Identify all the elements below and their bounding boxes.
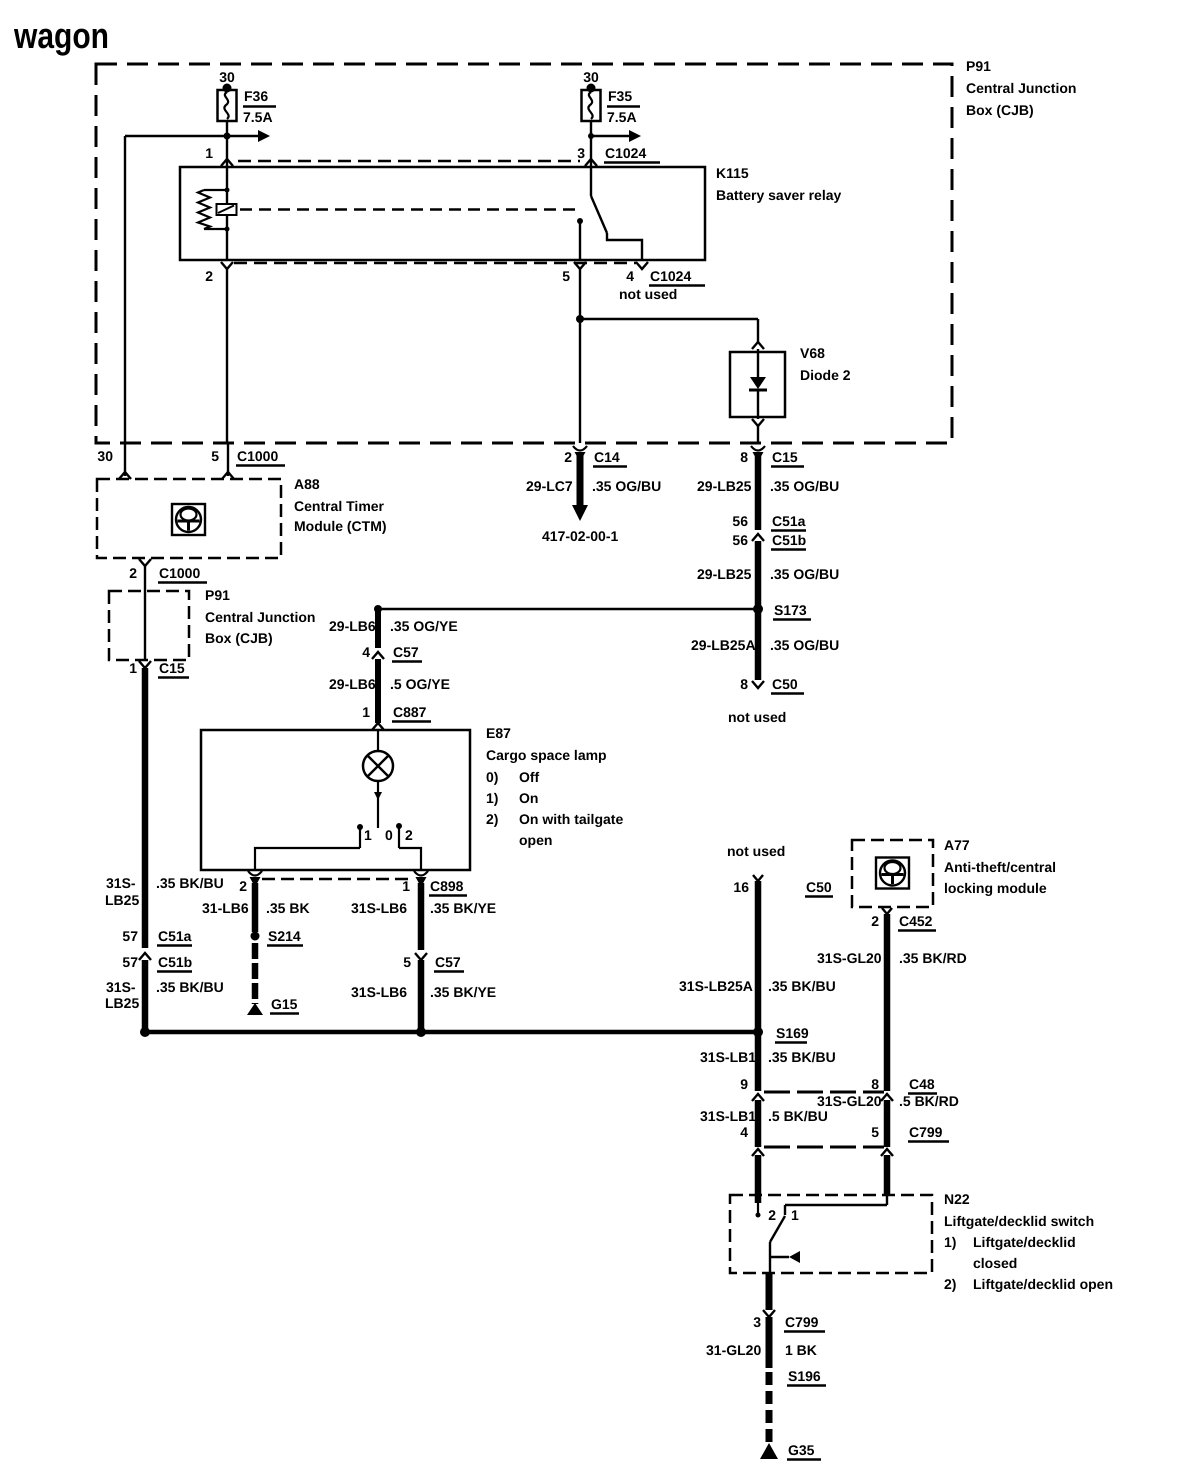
- svg-text:3: 3: [753, 1314, 761, 1330]
- svg-text:A77: A77: [944, 837, 970, 853]
- svg-text:16: 16: [733, 879, 749, 895]
- svg-text:Cargo space lamp: Cargo space lamp: [486, 747, 607, 763]
- svg-text:.5 BK/RD: .5 BK/RD: [899, 1093, 959, 1109]
- svg-text:31S-GL20: 31S-GL20: [817, 950, 882, 966]
- svg-text:.5 BK/BU: .5 BK/BU: [768, 1108, 828, 1124]
- svg-text:7.5A: 7.5A: [607, 109, 637, 125]
- svg-text:C452: C452: [899, 913, 933, 929]
- svg-text:29-LB6: 29-LB6: [329, 618, 376, 634]
- svg-text:Liftgate/decklid: Liftgate/decklid: [973, 1234, 1076, 1250]
- svg-text:C898: C898: [430, 878, 464, 894]
- svg-text:4: 4: [740, 1124, 748, 1140]
- svg-text:LB25: LB25: [105, 892, 139, 908]
- svg-text:C15: C15: [772, 449, 798, 465]
- svg-text:Central Junction: Central Junction: [966, 80, 1076, 96]
- svg-text:C799: C799: [785, 1314, 819, 1330]
- svg-text:5: 5: [211, 448, 219, 464]
- svg-text:31S-GL20: 31S-GL20: [817, 1093, 882, 1109]
- svg-text:.35 BK: .35 BK: [266, 900, 310, 916]
- svg-text:30: 30: [97, 448, 113, 464]
- svg-text:29-LB25: 29-LB25: [697, 566, 752, 582]
- svg-text:G35: G35: [788, 1442, 815, 1458]
- svg-text:F36: F36: [244, 88, 268, 104]
- svg-text:Diode 2: Diode 2: [800, 367, 851, 383]
- svg-text:.35 BK/BU: .35 BK/BU: [768, 978, 836, 994]
- svg-text:C799: C799: [909, 1124, 943, 1140]
- svg-text:1: 1: [402, 878, 410, 894]
- svg-text:LB25: LB25: [105, 995, 139, 1011]
- svg-text:On with tailgate: On with tailgate: [519, 811, 623, 827]
- svg-text:31S-: 31S-: [106, 875, 136, 891]
- svg-text:Module (CTM): Module (CTM): [294, 518, 387, 534]
- svg-text:Liftgate/decklid open: Liftgate/decklid open: [973, 1276, 1113, 1292]
- svg-text:31S-: 31S-: [106, 979, 136, 995]
- svg-text:C50: C50: [806, 879, 832, 895]
- svg-text:C50: C50: [772, 676, 798, 692]
- svg-text:On: On: [519, 790, 538, 806]
- svg-text:C51a: C51a: [772, 513, 806, 529]
- svg-text:31S-LB6: 31S-LB6: [351, 900, 407, 916]
- svg-text:locking module: locking module: [944, 880, 1047, 896]
- svg-text:C48: C48: [909, 1076, 935, 1092]
- svg-text:0): 0): [486, 769, 498, 785]
- svg-text:Liftgate/decklid switch: Liftgate/decklid switch: [944, 1213, 1094, 1229]
- svg-text:8: 8: [871, 1076, 879, 1092]
- svg-text:29-LB6: 29-LB6: [329, 676, 376, 692]
- svg-text:1: 1: [362, 704, 370, 720]
- svg-text:31S-LB25A: 31S-LB25A: [679, 978, 753, 994]
- svg-text:1 BK: 1 BK: [785, 1342, 817, 1358]
- svg-text:Box (CJB): Box (CJB): [205, 630, 273, 646]
- svg-text:31S-LB6: 31S-LB6: [351, 984, 407, 1000]
- svg-text:5: 5: [562, 268, 570, 284]
- svg-text:S196: S196: [788, 1368, 821, 1384]
- svg-text:Off: Off: [519, 769, 540, 785]
- svg-text:.35 OG/BU: .35 OG/BU: [770, 478, 839, 494]
- svg-text:1: 1: [791, 1207, 799, 1223]
- svg-text:P91: P91: [205, 587, 230, 603]
- svg-text:Battery saver relay: Battery saver relay: [716, 187, 842, 203]
- svg-text:5: 5: [871, 1124, 879, 1140]
- svg-text:.35 OG/YE: .35 OG/YE: [390, 618, 458, 634]
- svg-text:1: 1: [205, 145, 213, 161]
- svg-text:.35 BK/RD: .35 BK/RD: [899, 950, 967, 966]
- svg-text:4: 4: [626, 268, 634, 284]
- svg-text:2: 2: [871, 913, 879, 929]
- svg-text:S173: S173: [774, 602, 807, 618]
- svg-text:.35 BK/BU: .35 BK/BU: [156, 979, 224, 995]
- svg-text:30: 30: [219, 69, 235, 85]
- svg-text:57: 57: [122, 928, 138, 944]
- svg-text:C57: C57: [393, 644, 419, 660]
- svg-text:2: 2: [405, 827, 413, 843]
- svg-text:.35 OG/BU: .35 OG/BU: [770, 637, 839, 653]
- svg-text:Anti-theft/central: Anti-theft/central: [944, 859, 1056, 875]
- svg-text:C15: C15: [159, 660, 185, 676]
- svg-text:C51b: C51b: [158, 954, 192, 970]
- svg-text:open: open: [519, 832, 552, 848]
- svg-text:3: 3: [577, 145, 585, 161]
- svg-text:31-LB6: 31-LB6: [202, 900, 249, 916]
- svg-text:1: 1: [129, 660, 137, 676]
- svg-text:2: 2: [239, 878, 247, 894]
- svg-text:E87: E87: [486, 725, 511, 741]
- svg-text:29-LB25: 29-LB25: [697, 478, 752, 494]
- svg-text:2: 2: [768, 1207, 776, 1223]
- svg-text:5: 5: [403, 954, 411, 970]
- svg-text:9: 9: [740, 1076, 748, 1092]
- svg-text:not used: not used: [727, 843, 785, 859]
- svg-text:1: 1: [364, 827, 372, 843]
- svg-text:S214: S214: [268, 928, 301, 944]
- svg-text:1): 1): [486, 790, 498, 806]
- svg-text:Central Junction: Central Junction: [205, 609, 315, 625]
- svg-text:2: 2: [205, 268, 213, 284]
- svg-text:N22: N22: [944, 1191, 970, 1207]
- svg-text:A88: A88: [294, 476, 320, 492]
- svg-text:2): 2): [944, 1276, 956, 1292]
- svg-text:V68: V68: [800, 345, 825, 361]
- svg-text:417-02-00-1: 417-02-00-1: [542, 528, 618, 544]
- svg-text:56: 56: [732, 532, 748, 548]
- svg-text:.35 BK/YE: .35 BK/YE: [430, 984, 496, 1000]
- svg-text:C1000: C1000: [237, 448, 278, 464]
- svg-text:not used: not used: [619, 286, 677, 302]
- svg-text:1): 1): [944, 1234, 956, 1250]
- svg-text:.35 OG/BU: .35 OG/BU: [592, 478, 661, 494]
- svg-text:8: 8: [740, 449, 748, 465]
- svg-text:C14: C14: [594, 449, 620, 465]
- svg-text:56: 56: [732, 513, 748, 529]
- svg-text:not used: not used: [728, 709, 786, 725]
- svg-text:.35 BK/BU: .35 BK/BU: [768, 1049, 836, 1065]
- svg-text:C51b: C51b: [772, 532, 806, 548]
- svg-text:.35 BK/BU: .35 BK/BU: [156, 875, 224, 891]
- svg-text:29-LB25A: 29-LB25A: [691, 637, 756, 653]
- svg-text:.5 OG/YE: .5 OG/YE: [390, 676, 450, 692]
- svg-text:C1024: C1024: [650, 268, 691, 284]
- svg-text:2): 2): [486, 811, 498, 827]
- svg-text:0: 0: [385, 827, 393, 843]
- svg-text:29-LC7: 29-LC7: [526, 478, 573, 494]
- svg-text:31-GL20: 31-GL20: [706, 1342, 761, 1358]
- svg-text:F35: F35: [608, 88, 632, 104]
- svg-text:C1000: C1000: [159, 565, 200, 581]
- svg-text:G15: G15: [271, 996, 298, 1012]
- svg-text:C57: C57: [435, 954, 461, 970]
- svg-text:Box (CJB): Box (CJB): [966, 102, 1034, 118]
- svg-text:wagon: wagon: [13, 15, 109, 56]
- svg-text:P91: P91: [966, 58, 991, 74]
- svg-text:C51a: C51a: [158, 928, 192, 944]
- svg-text:31S-LB1: 31S-LB1: [700, 1108, 756, 1124]
- svg-text:C1024: C1024: [605, 145, 646, 161]
- svg-text:57: 57: [122, 954, 138, 970]
- svg-text:30: 30: [583, 69, 599, 85]
- svg-text:2: 2: [564, 449, 572, 465]
- svg-text:.35 BK/YE: .35 BK/YE: [430, 900, 496, 916]
- svg-text:closed: closed: [973, 1255, 1017, 1271]
- svg-text:4: 4: [362, 644, 370, 660]
- svg-text:S169: S169: [776, 1025, 809, 1041]
- svg-text:7.5A: 7.5A: [243, 109, 273, 125]
- svg-text:31S-LB1: 31S-LB1: [700, 1049, 756, 1065]
- svg-text:2: 2: [129, 565, 137, 581]
- svg-text:8: 8: [740, 676, 748, 692]
- svg-text:Central Timer: Central Timer: [294, 498, 385, 514]
- svg-text:.35 OG/BU: .35 OG/BU: [770, 566, 839, 582]
- svg-text:C887: C887: [393, 704, 427, 720]
- svg-text:K115: K115: [716, 165, 749, 181]
